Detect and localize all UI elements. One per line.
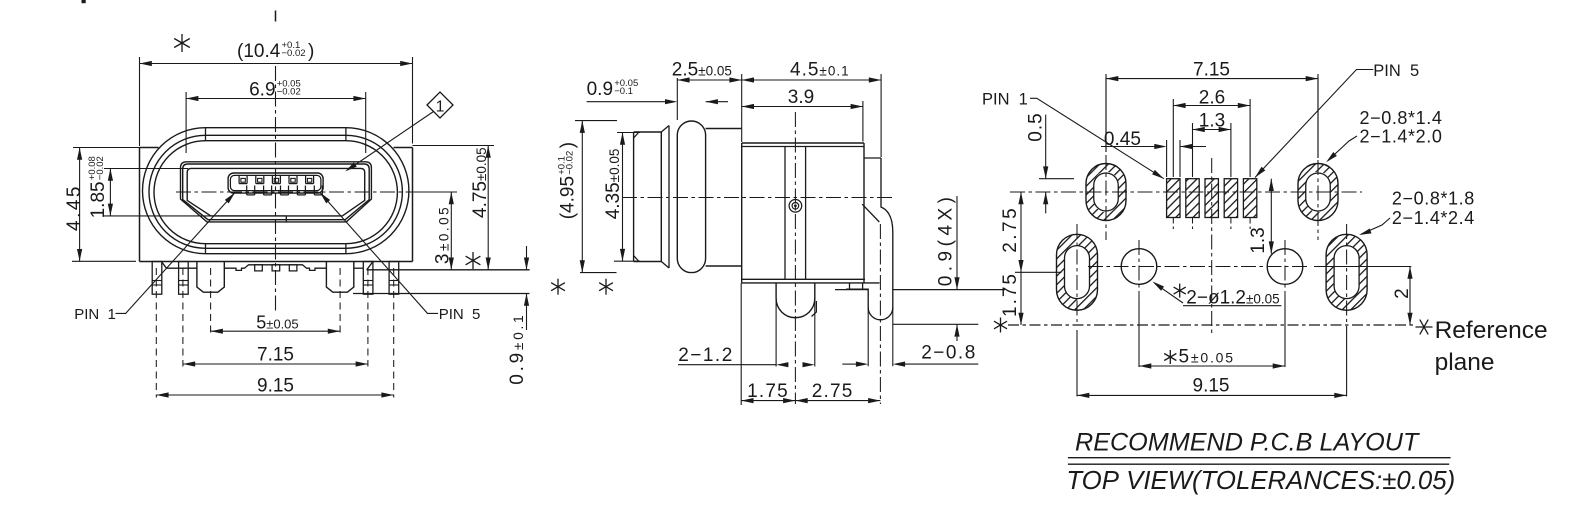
side view shield leg <box>776 283 815 318</box>
svg-text:2.75: 2.75 <box>812 381 854 402</box>
receptacle opening inner contour <box>187 168 365 216</box>
tongue contacts <box>238 175 240 183</box>
dimension 2.5 <box>676 78 678 120</box>
dimension 0.9 stand-off <box>526 246 528 270</box>
svg-text:−0.02: −0.02 <box>282 48 306 59</box>
svg-text:(4.95: (4.95 <box>558 176 579 219</box>
dimension 0.5 <box>1039 178 1074 180</box>
dimension 1.3 vertical pcb <box>1270 179 1272 254</box>
lower pad left <box>1057 234 1098 310</box>
side view tube front chamfers <box>634 132 639 138</box>
svg-text:7.15: 7.15 <box>1193 60 1230 81</box>
svg-text:−0.02: −0.02 <box>95 156 106 180</box>
shell stadium inner <box>154 141 397 244</box>
svg-text:0.5: 0.5 <box>1026 112 1047 141</box>
svg-text:1.85: 1.85 <box>88 181 109 218</box>
upper pad right <box>1298 164 1338 221</box>
side view leg centerline <box>794 112 796 404</box>
contact lead width extension lines <box>867 308 869 367</box>
dimension 1.3 pcb <box>1192 123 1194 177</box>
leg centerlines dashed <box>155 268 157 398</box>
svg-text:0.9: 0.9 <box>587 79 613 100</box>
dimension 4.45 left <box>73 147 140 149</box>
star seating plane left <box>466 252 481 269</box>
svg-text:plane: plane <box>1435 349 1495 376</box>
star reference left <box>994 318 1007 333</box>
star pair middle <box>551 279 565 295</box>
lower pad right <box>1326 234 1367 310</box>
dimension 0.45 <box>1166 140 1168 177</box>
svg-text:2.75: 2.75 <box>1000 206 1021 253</box>
rivet <box>789 200 802 213</box>
svg-text:2.6: 2.6 <box>1199 88 1225 109</box>
dimension 2 vertical pcb <box>1409 267 1411 326</box>
crop mark top-left <box>82 0 86 3</box>
side view flange transition <box>661 126 669 133</box>
svg-text:4.35±0.05: 4.35±0.05 <box>603 149 624 220</box>
pcb centerline horizontal vias <box>1088 266 1308 268</box>
dimension 3 right <box>410 191 457 193</box>
pcb centerline horizontal pads <box>1010 191 1362 193</box>
pcb vertical centerlines <box>1105 77 1107 152</box>
svg-text:4.75±0.05: 4.75±0.05 <box>470 147 491 218</box>
dimension 0.9 4X <box>956 196 958 290</box>
shell seam ticks <box>205 128 207 141</box>
svg-text:(10.4: (10.4 <box>237 41 281 62</box>
svg-text:−0.02: −0.02 <box>565 151 576 175</box>
svg-text:): ) <box>558 142 579 148</box>
svg-text:2−0.8: 2−0.8 <box>921 343 977 364</box>
svg-text:2−0.8*1.4: 2−0.8*1.4 <box>1360 108 1443 128</box>
tongue lower tabs <box>246 186 248 195</box>
contact pads hatched strips <box>1167 179 1180 218</box>
svg-text:6.9: 6.9 <box>249 80 275 101</box>
side view flange capsule <box>677 121 705 273</box>
dimension 9.15 pcb <box>1077 394 1347 396</box>
side view centerline horizontal <box>622 197 892 199</box>
svg-text:9.15: 9.15 <box>1193 375 1230 396</box>
via hole left <box>1121 249 1157 285</box>
dimension 2.75 pcb <box>1015 271 1062 273</box>
side view neck <box>706 128 742 130</box>
svg-text:−0.02: −0.02 <box>277 87 301 98</box>
svg-text:7.15: 7.15 <box>257 345 294 366</box>
thin leg 1 <box>152 262 162 295</box>
front view body rectangle <box>139 148 141 262</box>
label 2-dia1.2 <box>1174 284 1186 298</box>
dimension 10.4 top <box>139 57 141 146</box>
dimension 4.95 left <box>575 120 617 122</box>
via level extension line <box>1314 266 1411 268</box>
svg-text:3.9: 3.9 <box>788 87 814 108</box>
svg-text:1: 1 <box>436 99 445 116</box>
shield leg width extension lines <box>775 298 777 366</box>
dimension 7.15 bottom <box>183 363 368 365</box>
dimension 5 pcb <box>1164 350 1176 364</box>
dimension 0.9 flange <box>587 78 639 100</box>
svg-text:PIN 1: PIN 1 <box>982 91 1028 109</box>
shell stadium middle <box>149 135 402 248</box>
svg-text:RECOMMEND P.C.B LAYOUT: RECOMMEND P.C.B LAYOUT <box>1075 428 1420 456</box>
dimension 4.35 <box>617 132 640 134</box>
dimension 5 bottom <box>211 330 341 332</box>
svg-text:−0.1: −0.1 <box>614 86 633 97</box>
svg-text:): ) <box>308 41 314 62</box>
reference plane line <box>1008 324 1415 326</box>
seating plane line lower <box>353 293 530 295</box>
front view centerline horizontal <box>176 191 456 193</box>
star reference right <box>1416 320 1433 335</box>
tongue outline <box>228 173 323 193</box>
big shield leg right <box>326 262 353 293</box>
svg-text:TOP VIEW(TOLERANCES:±0.05): TOP VIEW(TOLERANCES:±0.05) <box>1066 467 1455 495</box>
dimension 9.15 bottom <box>156 394 393 396</box>
dimension 4.75 right <box>413 145 495 147</box>
dimension 1.75 pcb <box>1020 272 1022 325</box>
dimension 3.9 <box>862 101 864 142</box>
svg-text:4.45: 4.45 <box>64 184 85 231</box>
solder legs bottom profile <box>162 262 197 268</box>
receptacle opening second contour <box>183 164 370 220</box>
dimension 4.5 <box>880 74 882 157</box>
star left view top <box>174 34 190 52</box>
svg-text:PIN 5: PIN 5 <box>439 306 481 323</box>
svg-text:PIN 5: PIN 5 <box>1373 62 1419 80</box>
svg-text:1.3: 1.3 <box>1248 227 1269 253</box>
svg-text:2−1.4*2.0: 2−1.4*2.0 <box>1360 126 1443 146</box>
bent contact lead <box>864 157 881 159</box>
svg-text:2−0.8*1.8: 2−0.8*1.8 <box>1392 189 1475 209</box>
svg-text:Reference: Reference <box>1435 317 1548 344</box>
plane line segments middle <box>835 289 868 291</box>
center small tabs <box>255 265 263 271</box>
dimension 2.6 pcb <box>1172 99 1174 177</box>
strip centerline stubs <box>1172 218 1174 230</box>
svg-text:2: 2 <box>1392 288 1413 299</box>
small tab below block <box>849 283 851 289</box>
big shield leg left <box>197 262 224 293</box>
svg-text:0.9(4X): 0.9(4X) <box>936 192 957 286</box>
svg-text:5±0.05: 5±0.05 <box>1179 347 1235 368</box>
via hole right <box>1267 249 1303 285</box>
shell stadium outer <box>143 128 409 254</box>
svg-text:2.5±0.05: 2.5±0.05 <box>672 60 732 81</box>
opening bottom tick <box>285 216 287 222</box>
side view body block <box>741 143 743 283</box>
svg-text:3±0.05: 3±0.05 <box>433 205 454 264</box>
balloon 1 diamond <box>427 92 453 118</box>
dimension 6.9 <box>185 92 187 153</box>
dimension 7.15 pcb <box>1105 74 1107 152</box>
receptacle opening outer contour <box>181 162 372 222</box>
svg-text:1.75: 1.75 <box>1000 272 1021 317</box>
svg-text:9.15: 9.15 <box>257 376 294 397</box>
svg-text:2−1.4*2.4: 2−1.4*2.4 <box>1392 208 1475 228</box>
svg-text:2−1.2: 2−1.2 <box>678 345 734 366</box>
block center slot <box>784 147 786 280</box>
svg-text:4.5±0.1: 4.5±0.1 <box>790 60 850 81</box>
upper pad left <box>1086 164 1126 221</box>
front view centerline vertical <box>275 11 277 22</box>
side view shell tube <box>633 132 635 262</box>
svg-text:PIN 1: PIN 1 <box>74 306 116 323</box>
svg-text:1.3: 1.3 <box>1199 111 1225 132</box>
dimension 1.75 side <box>740 283 742 405</box>
svg-text:1.75: 1.75 <box>747 381 789 402</box>
dimension 1.85 <box>104 168 188 170</box>
svg-text:0.9±0.1: 0.9±0.1 <box>507 313 528 385</box>
seating plane line upper <box>367 269 530 271</box>
side view lead centerline <box>879 224 881 404</box>
svg-text:0.45: 0.45 <box>1104 129 1141 150</box>
